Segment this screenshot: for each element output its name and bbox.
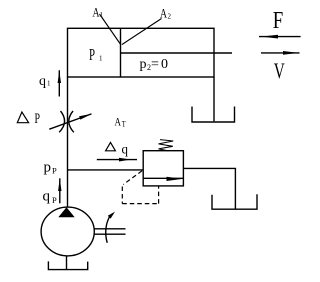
triangle of deltaP label — [17, 112, 28, 123]
triangle of deltaQ label — [106, 142, 116, 150]
svg-text:p: p — [140, 57, 147, 72]
wire main supply vertical — [67, 77, 69, 207]
svg-text:A: A — [115, 115, 122, 129]
throttle valve left arc — [59, 111, 64, 132]
svg-text:P: P — [52, 166, 57, 176]
tank T3 — [48, 261, 87, 269]
svg-text:T: T — [122, 120, 126, 129]
piston — [120, 28, 122, 77]
svg-text:1: 1 — [99, 55, 103, 63]
wire branch to relief valve — [68, 169, 144, 171]
arrow v line — [261, 52, 300, 54]
tank T2 — [212, 194, 257, 209]
svg-text:1: 1 — [100, 11, 104, 19]
wire relief outlet — [183, 168, 235, 209]
leader line A1 — [100, 14, 122, 45]
relief valve divider — [143, 177, 183, 179]
svg-text:q: q — [43, 189, 51, 205]
svg-text:P: P — [89, 45, 95, 64]
arrowhead pump rotation — [108, 212, 115, 219]
arrowhead throttle — [79, 114, 92, 120]
pump out triangle — [58, 207, 74, 217]
throttle adjust arrow — [49, 114, 91, 129]
relief valve body — [143, 151, 183, 186]
svg-text:q: q — [122, 142, 129, 157]
relief internal arrow — [167, 177, 183, 181]
svg-text:P: P — [52, 195, 57, 205]
pump shaft — [94, 228, 126, 230]
arrowhead qP — [58, 178, 61, 191]
svg-text:F: F — [273, 8, 284, 34]
throttle valve right arc — [69, 111, 74, 132]
arrowhead v (right) — [283, 51, 299, 55]
cylinder body — [68, 28, 215, 77]
svg-text:1: 1 — [47, 80, 51, 88]
arrowhead deltaQ — [119, 158, 131, 162]
arrow q1 — [58, 70, 60, 96]
svg-text:=0: =0 — [151, 57, 168, 72]
arrow deltaQ — [97, 159, 137, 161]
leader line A2 — [122, 19, 162, 45]
svg-text:V: V — [274, 58, 285, 83]
arrow qP — [59, 178, 61, 203]
relief valve spring — [159, 140, 174, 151]
svg-text:A: A — [160, 6, 167, 21]
wire rod-side drain — [213, 77, 215, 121]
arrow F line — [259, 36, 301, 38]
pump circle — [41, 207, 94, 256]
tank T1 — [192, 107, 235, 123]
arrowhead F (left) — [261, 35, 278, 39]
pump rotation arrow — [106, 216, 110, 243]
svg-text:2: 2 — [168, 13, 172, 21]
wire pump suction — [66, 256, 68, 270]
svg-text:q: q — [39, 74, 46, 89]
svg-text:p: p — [44, 160, 52, 176]
arrowhead q1 — [58, 70, 61, 83]
svg-text:P: P — [35, 111, 41, 127]
piston rod — [121, 52, 233, 54]
pilot line dashed — [122, 171, 158, 204]
